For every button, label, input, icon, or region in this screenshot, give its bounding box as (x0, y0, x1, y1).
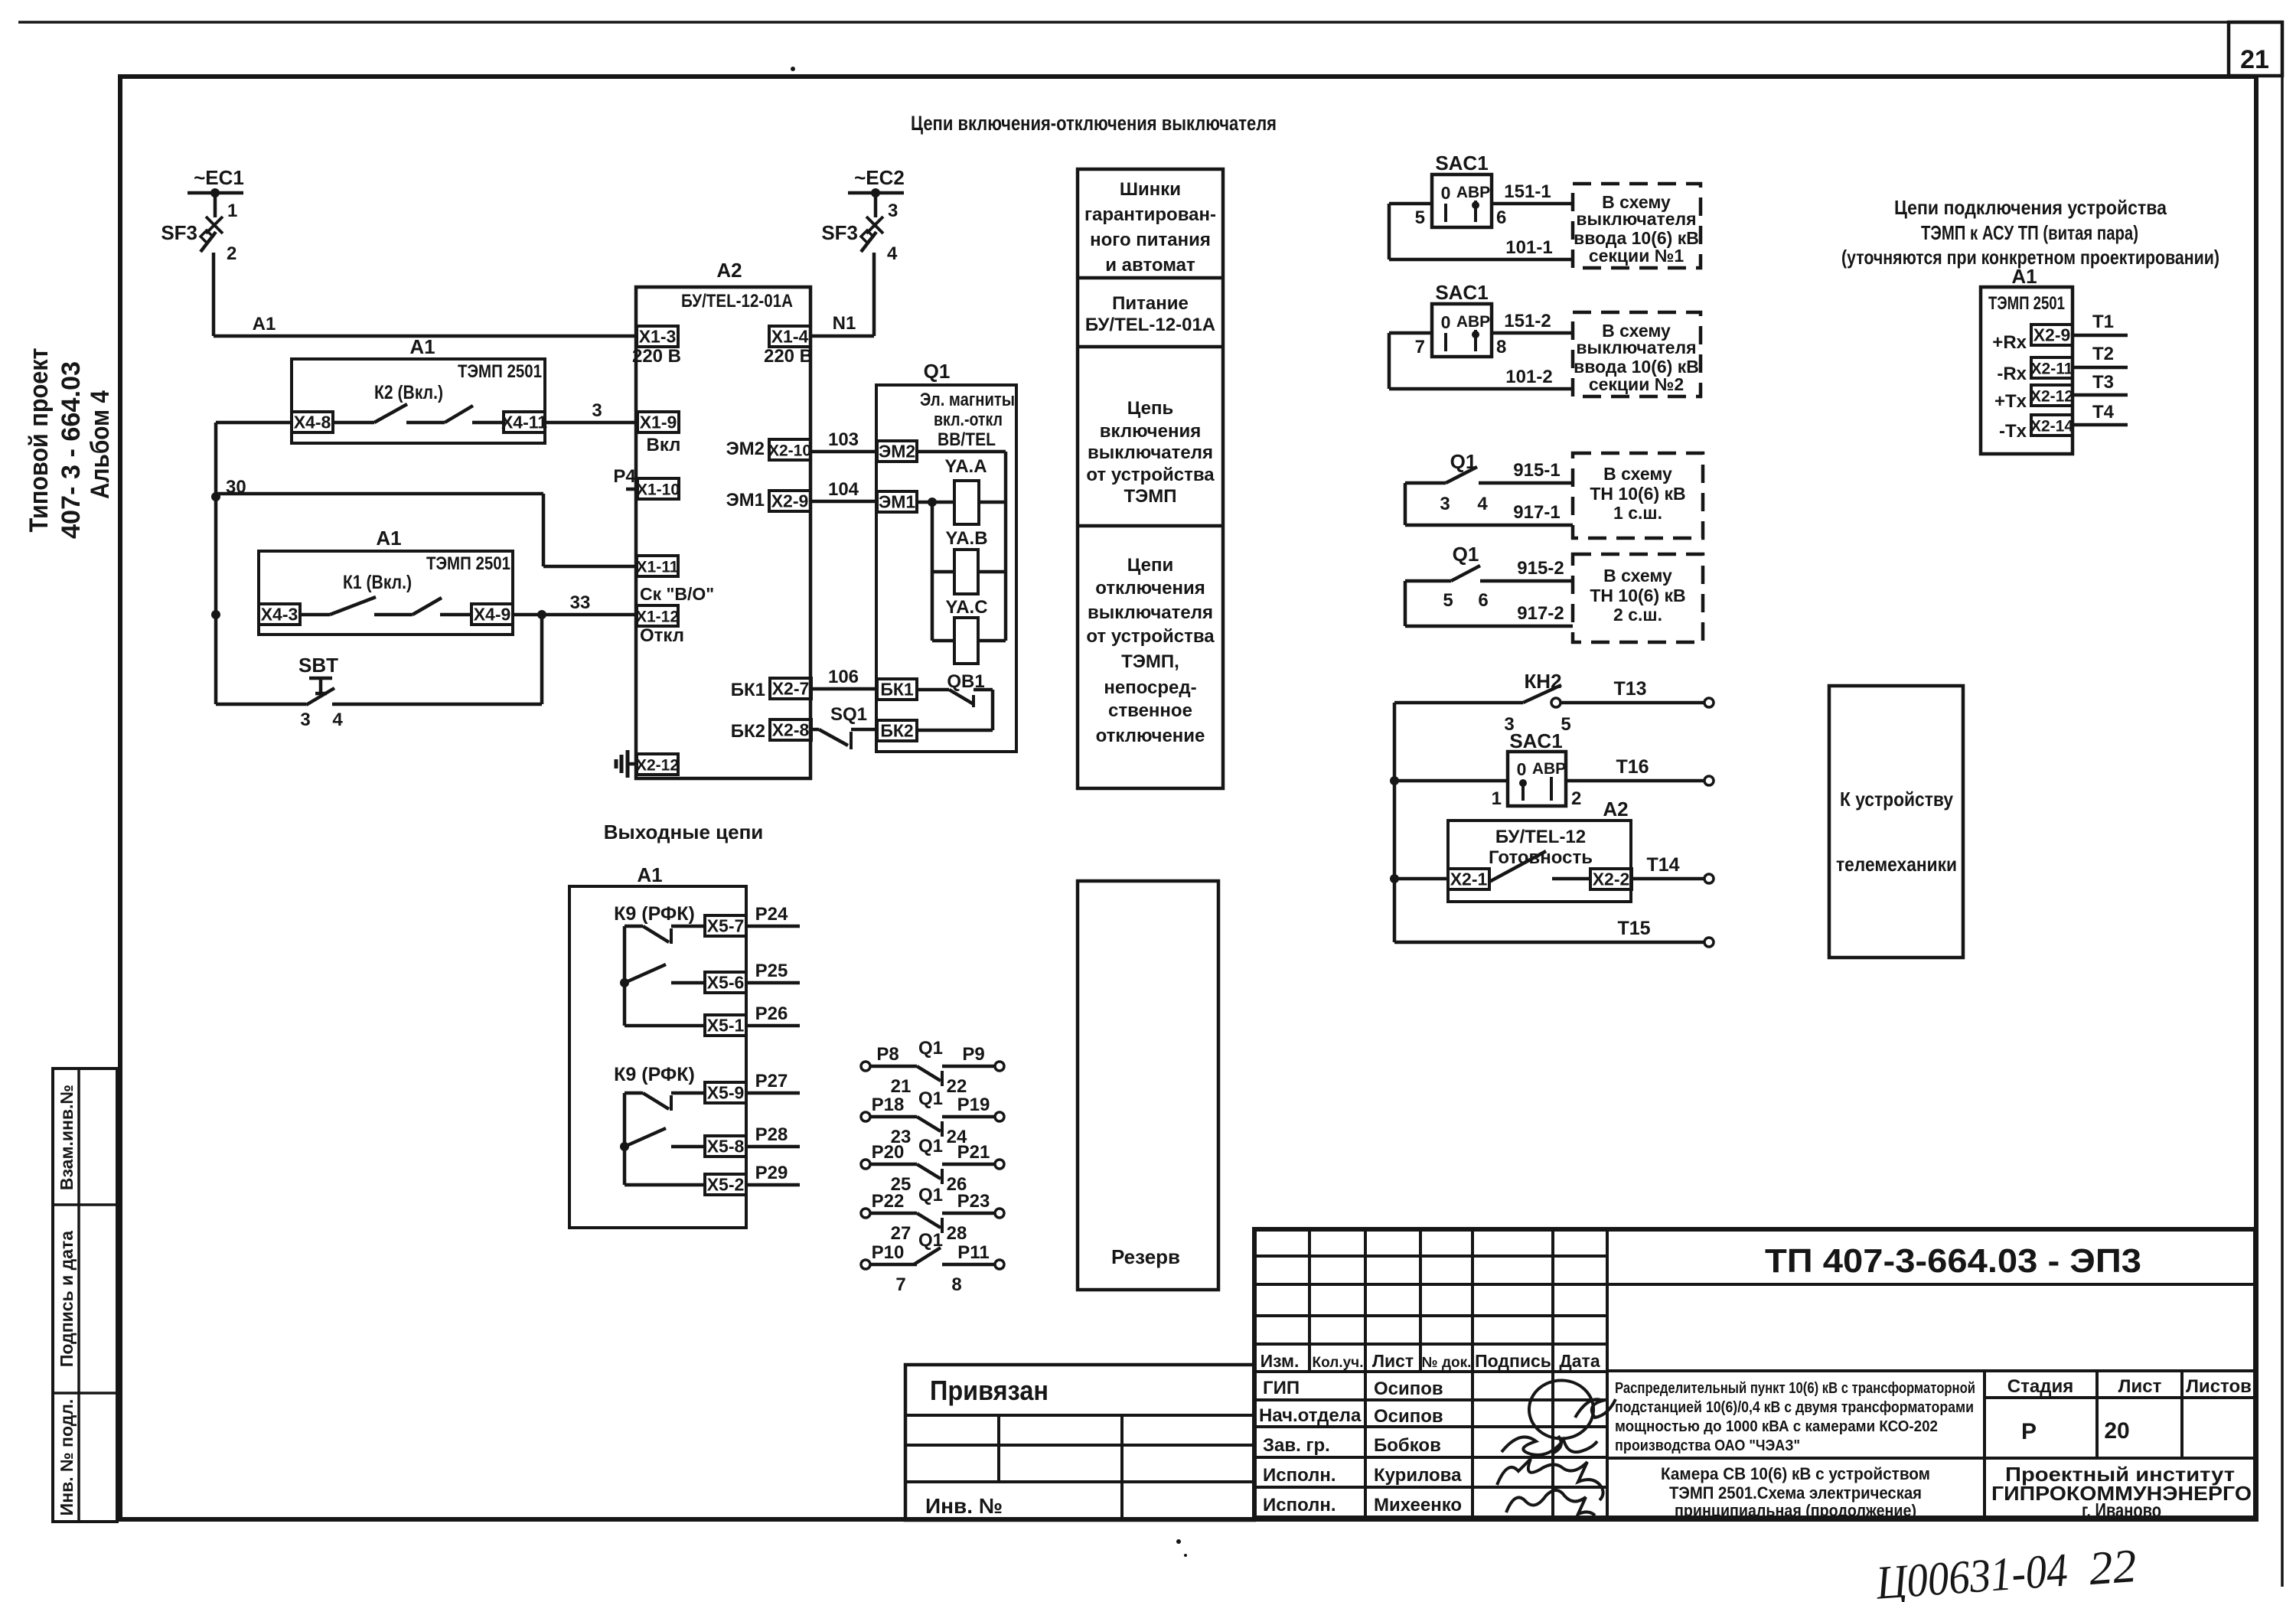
svg-text:915-2: 915-2 (1517, 558, 1564, 579)
svg-text:ЭМ2: ЭМ2 (879, 442, 915, 462)
svg-text:SBT: SBT (298, 654, 338, 677)
wire 104 (810, 500, 877, 504)
svg-text:YA.A: YA.A (944, 456, 987, 477)
svg-text:БУ/TEL-12-01А: БУ/TEL-12-01А (1085, 315, 1215, 335)
wire SBT left (216, 703, 306, 706)
svg-text:X2-2: X2-2 (1593, 870, 1630, 889)
svg-text:0: 0 (1441, 312, 1451, 332)
svg-text:Вкл: Вкл (647, 435, 681, 455)
staff rows (1254, 1398, 1607, 1401)
svg-text:5: 5 (1443, 590, 1453, 611)
wire T2 (2073, 366, 2128, 370)
svg-text:8: 8 (951, 1274, 961, 1295)
svg-text:2: 2 (227, 243, 236, 264)
svg-text:К1 (Вкл.): К1 (Вкл.) (343, 572, 412, 593)
svg-text:Взам.инв.№: Взам.инв.№ (57, 1085, 77, 1190)
wire to X5-2 (625, 1183, 705, 1187)
svg-text:1: 1 (1492, 788, 1502, 809)
wire EC2 down (874, 193, 878, 217)
switch Q1 aux contact P18/P19 (861, 1112, 870, 1121)
title block revision grid (1308, 1229, 1311, 1372)
svg-text:К9 (РФК): К9 (РФК) (614, 1064, 695, 1085)
wire T4 (2073, 423, 2128, 427)
svg-text:X2-14: X2-14 (2030, 418, 2073, 436)
svg-text:P8: P8 (876, 1044, 899, 1065)
switch SAC1 no.1 box (1432, 175, 1492, 227)
contact group 2 bus (623, 1093, 627, 1185)
svg-text:ТН 10(6) кВ: ТН 10(6) кВ (1590, 484, 1685, 504)
svg-text:Питание: Питание (1112, 293, 1189, 314)
svg-text:X2-10: X2-10 (768, 442, 811, 460)
title block outline (1254, 1229, 2255, 1518)
svg-text:0: 0 (1441, 183, 1451, 203)
svg-text:Цепь: Цепь (1127, 398, 1173, 419)
signature Осипов (1529, 1380, 1616, 1453)
svg-text:X2-12: X2-12 (2030, 388, 2073, 406)
svg-text:X1-11: X1-11 (637, 559, 679, 576)
svg-text:P18: P18 (872, 1095, 905, 1115)
wire T14 left (1394, 877, 1448, 881)
terminal X4-11 (504, 412, 545, 432)
junction EC1 (210, 188, 220, 197)
svg-text:3: 3 (888, 201, 898, 221)
svg-text:SAC1: SAC1 (1435, 152, 1488, 175)
node 30 (211, 492, 220, 501)
wire 106 (811, 687, 877, 691)
terminal X5-2 (705, 1174, 746, 1195)
svg-text:P21: P21 (957, 1142, 990, 1163)
Привязан block outline (905, 1365, 1254, 1520)
terminal X2-9 power (769, 491, 810, 511)
svg-text:6: 6 (1478, 590, 1488, 611)
svg-text:Т3: Т3 (2092, 372, 2114, 393)
svg-text:Шинки: Шинки (1120, 179, 1181, 200)
bus bar EC2 (848, 191, 904, 195)
switch Q1 aux contact P10/P11 (861, 1260, 870, 1269)
svg-text:Инв. № подл.: Инв. № подл. (57, 1399, 77, 1516)
box К устройству телемеханики (1829, 686, 1963, 958)
terminal X2-7 (770, 678, 811, 699)
svg-text:ственное: ственное (1108, 700, 1192, 721)
junction К9-2 (620, 1142, 629, 1151)
svg-text:Резерв: Резерв (1111, 1245, 1180, 1268)
svg-text:P29: P29 (755, 1163, 788, 1183)
pushbutton SBT blade (306, 688, 334, 705)
terminal X4-9 (471, 604, 513, 625)
terminal X5-6 (705, 972, 746, 993)
svg-text:Q1: Q1 (918, 1038, 943, 1059)
svg-text:20: 20 (2104, 1418, 2129, 1444)
svg-text:917-2: 917-2 (1517, 603, 1564, 624)
svg-text:В схему: В схему (1603, 464, 1672, 484)
svg-text:21: 21 (891, 1076, 912, 1097)
svg-text:X5-9: X5-9 (707, 1083, 745, 1103)
svg-text:К2 (Вкл.): К2 (Вкл.) (374, 382, 443, 403)
svg-text:БК2: БК2 (731, 721, 765, 742)
svg-text:5: 5 (1415, 207, 1425, 228)
svg-text:X5-1: X5-1 (707, 1016, 745, 1036)
terminal X1-12 (637, 605, 678, 626)
svg-text:103: 103 (828, 429, 859, 450)
svg-text:Подпись и дата: Подпись и дата (57, 1231, 77, 1367)
svg-text:Альбом 4: Альбом 4 (86, 390, 115, 499)
svg-text:Привязан: Привязан (930, 1375, 1049, 1406)
stub wire P4 (626, 488, 638, 491)
terminal X2-1 (1448, 869, 1489, 889)
svg-text:от устройства: от устройства (1086, 626, 1215, 647)
sheet top edge line (18, 21, 2282, 24)
telemetry left bus (1393, 703, 1397, 942)
block A1 output outline (569, 886, 746, 1228)
svg-text:Q1: Q1 (1453, 543, 1479, 566)
wire T1 (2073, 334, 2128, 338)
svg-text:Михеенко: Михеенко (1374, 1495, 1462, 1516)
wire P27 (746, 1091, 800, 1095)
wire 103 (810, 450, 877, 454)
terminal X1-9 (638, 412, 679, 432)
wire N1 horizontal (810, 334, 874, 338)
svg-text:от устройства: от устройства (1086, 465, 1215, 485)
svg-text:2: 2 (1571, 788, 1581, 809)
svg-text:Т2: Т2 (2092, 344, 2114, 364)
dashed box В схему выключателя секции 1 (1573, 184, 1701, 268)
svg-text:27: 27 (891, 1223, 912, 1244)
terminal БК1 Q1 (877, 679, 917, 700)
svg-text:Выходные цепи: Выходные цепи (604, 821, 764, 843)
breaker blade SF3 left (201, 232, 216, 252)
wire A1 horizontal (214, 334, 638, 338)
svg-text:2 с.ш.: 2 с.ш. (1613, 605, 1662, 625)
right bus from 33 to SBT (540, 615, 544, 704)
svg-text:В схему: В схему (1603, 566, 1672, 586)
svg-text:N1: N1 (833, 313, 856, 334)
svg-text:X2-9: X2-9 (2033, 325, 2071, 345)
svg-text:непосред-: непосред- (1104, 677, 1196, 698)
svg-text:Q1: Q1 (918, 1136, 943, 1157)
svg-text:принципиальная (продолжение): принципиальная (продолжение) (1675, 1501, 1916, 1520)
wire SBT right (332, 703, 542, 706)
svg-text:X4-11: X4-11 (501, 413, 547, 432)
wire SAC1-1 left loop (1389, 202, 1432, 206)
designation cell ТП 407-3-664.03 - ЭПЗ (1607, 1283, 2255, 1286)
wire P29 (746, 1183, 800, 1187)
coil group left vertical (931, 502, 934, 641)
svg-text:секции №1: секции №1 (1589, 246, 1684, 266)
svg-text:АВР: АВР (1532, 760, 1566, 778)
svg-text:P10: P10 (872, 1242, 905, 1263)
wire P28 (746, 1145, 800, 1149)
svg-text:БК1: БК1 (731, 680, 765, 700)
svg-text:X5-6: X5-6 (707, 973, 745, 993)
coil YA.A (954, 481, 979, 524)
svg-text:3: 3 (1440, 494, 1450, 514)
svg-text:Лист: Лист (1372, 1351, 1414, 1371)
svg-text:3: 3 (592, 400, 602, 421)
sheet right edge line (2281, 22, 2284, 1587)
svg-text:гарантирован-: гарантирован- (1084, 204, 1216, 225)
svg-text:Q1: Q1 (918, 1088, 943, 1109)
svg-text:~EC2: ~EC2 (854, 166, 905, 189)
svg-text:P22: P22 (872, 1191, 905, 1212)
svg-text:Нач.отдела: Нач.отдела (1259, 1405, 1362, 1426)
svg-text:+Тx: +Тx (1994, 391, 2027, 412)
wire P26 (746, 1024, 800, 1028)
wire T3 (2073, 393, 2128, 397)
svg-text:1: 1 (227, 201, 237, 221)
svg-text:отключение: отключение (1096, 726, 1205, 746)
svg-text:ЭМ2: ЭМ2 (726, 439, 765, 459)
svg-text:Т15: Т15 (1617, 918, 1650, 939)
scanner speck (1176, 1539, 1181, 1544)
switch SAC1 no.3 box (1508, 752, 1566, 806)
svg-text:Т4: Т4 (2092, 402, 2115, 423)
svg-text:1 с.ш.: 1 с.ш. (1613, 503, 1662, 523)
svg-text:33: 33 (570, 592, 591, 613)
wire ЭМ2 to coil bus (917, 450, 1006, 454)
terminal X1-10 (638, 478, 679, 499)
dashed box В схему выключателя секции 2 (1573, 312, 1701, 396)
svg-text:А1: А1 (2011, 265, 2037, 288)
svg-text:22: 22 (947, 1076, 967, 1097)
svg-text:БК1: БК1 (880, 680, 914, 700)
svg-text:ТЭМП,: ТЭМП, (1121, 651, 1179, 672)
svg-text:917-1: 917-1 (1513, 502, 1560, 523)
wire 3 to X1-9 (545, 421, 638, 425)
wire 151-1 (1492, 202, 1573, 206)
Готовность contact blade (1489, 851, 1546, 882)
svg-text:производства ОАО "ЧЭАЗ": производства ОАО "ЧЭАЗ" (1615, 1437, 1800, 1454)
junction T16 (1390, 776, 1399, 785)
svg-text:X2-9: X2-9 (771, 491, 809, 511)
wires YA.C (932, 639, 954, 643)
terminal X5-8 (705, 1136, 746, 1157)
svg-text:SQ1: SQ1 (830, 704, 867, 725)
terminal ЭМ1 (877, 491, 917, 512)
svg-text:АВР: АВР (1456, 184, 1490, 201)
relay K2 block outline (292, 359, 545, 443)
description column outline (1078, 169, 1223, 788)
terminal X2-8 (770, 719, 811, 740)
svg-text:220 В: 220 В (632, 346, 681, 367)
wire from X4-8 to left bus (216, 421, 292, 425)
svg-text:4: 4 (1477, 494, 1488, 514)
junction 33 (537, 610, 546, 619)
svg-text:ТЭМП: ТЭМП (1124, 486, 1177, 507)
block БУ/TEL-12 Готовность outline (1448, 821, 1631, 902)
switch SAC1 no.2 box (1432, 304, 1492, 357)
switch Q1 aux contact P8/P9 (861, 1062, 870, 1071)
svg-text:выключателя: выключателя (1576, 209, 1696, 229)
Резерв box (1078, 881, 1218, 1290)
breaker contact cross SF3 left (206, 217, 223, 233)
svg-text:151-1: 151-1 (1504, 181, 1551, 202)
dashed box В схему ТН 1 с.ш. (1573, 453, 1703, 538)
terminal X2-12 (637, 754, 678, 775)
svg-text:Т14: Т14 (1646, 854, 1679, 876)
svg-text:телемеханики: телемеханики (1836, 853, 1957, 876)
terminal X5-1 (705, 1015, 746, 1036)
svg-text:ного питания: ного питания (1090, 230, 1211, 250)
svg-text:X5-2: X5-2 (707, 1175, 745, 1195)
svg-text:P20: P20 (872, 1142, 905, 1163)
wire T16 right (1566, 779, 1705, 783)
svg-text:YA.B: YA.B (945, 528, 987, 549)
svg-text:Исполн.: Исполн. (1263, 1495, 1336, 1516)
svg-text:P4: P4 (613, 466, 636, 487)
coil YA.B (954, 550, 978, 594)
svg-text:Осипов: Осипов (1374, 1406, 1443, 1427)
svg-text:АВР: АВР (1456, 313, 1490, 331)
svg-text:SAC1: SAC1 (1509, 729, 1562, 752)
svg-text:X2-11: X2-11 (2031, 361, 2073, 378)
svg-text:YA.C: YA.C (945, 597, 987, 618)
block Q1 outline (876, 385, 1016, 752)
svg-text:P27: P27 (755, 1071, 788, 1091)
wire N1 vertical (872, 253, 876, 336)
svg-text:Р: Р (2021, 1419, 2037, 1444)
terminal X5-7 (705, 915, 746, 936)
svg-text:106: 106 (828, 667, 859, 687)
svg-text:ТН 10(6) кВ: ТН 10(6) кВ (1590, 586, 1685, 605)
svg-text:P24: P24 (755, 904, 788, 925)
svg-text:~EC1: ~EC1 (194, 166, 244, 189)
svg-text:X1-9: X1-9 (640, 413, 677, 432)
svg-text:Q1: Q1 (918, 1230, 943, 1251)
wire 151-2 (1492, 331, 1573, 335)
scanner speck (1184, 1554, 1187, 1557)
terminal БК2 Q1 (877, 720, 917, 741)
wire P24 (746, 925, 800, 928)
loop 917-2 (1404, 581, 1407, 626)
title block right grid (1607, 1369, 2255, 1372)
svg-text:4: 4 (887, 243, 898, 264)
svg-text:X4-8: X4-8 (294, 413, 331, 432)
svg-text:А1: А1 (376, 527, 401, 550)
svg-text:A1: A1 (253, 314, 276, 334)
svg-text:X5-7: X5-7 (707, 916, 745, 936)
junction EC2 (871, 188, 880, 197)
svg-text:включения: включения (1100, 421, 1201, 442)
svg-text:X2-7: X2-7 (772, 679, 810, 699)
wire EC1 down (214, 193, 217, 217)
relay K1 contacts (300, 613, 330, 617)
pushbutton SBT symbol (309, 677, 332, 680)
svg-text:Стадия: Стадия (2007, 1376, 2073, 1397)
svg-text:Инв. №: Инв. № (925, 1494, 1003, 1518)
switch КН2 (1394, 701, 1523, 705)
coil bus right vertical (1004, 452, 1008, 641)
svg-text:Зав. гр.: Зав. гр. (1263, 1435, 1330, 1456)
svg-text:А2: А2 (716, 259, 742, 282)
svg-text:X2-8: X2-8 (772, 720, 810, 740)
svg-text:К9 (РФК): К9 (РФК) (614, 903, 695, 925)
svg-text:ВВ/TEL: ВВ/TEL (938, 429, 996, 450)
svg-text:Цепи подключения устройства: Цепи подключения устройства (1894, 196, 2167, 219)
svg-text:X1-3: X1-3 (639, 327, 677, 347)
svg-text:6: 6 (1496, 207, 1506, 228)
svg-text:SAC1: SAC1 (1435, 281, 1488, 304)
terminal X1-11 (637, 556, 678, 576)
svg-text:ТЭМП 2501: ТЭМП 2501 (426, 553, 510, 574)
wire T15 (1394, 941, 1705, 945)
left margin stamp boxes (53, 1069, 117, 1522)
svg-text:P23: P23 (957, 1191, 990, 1212)
svg-text:ТЭМП 2501: ТЭМП 2501 (1988, 293, 2065, 314)
svg-text:выключателя: выключателя (1088, 602, 1213, 623)
terminal X2-2 (1590, 869, 1632, 889)
loop 917-1 (1404, 483, 1407, 525)
svg-text:Ск "В/О": Ск "В/О" (640, 584, 714, 604)
svg-text:7: 7 (1415, 337, 1425, 357)
scanner speck (791, 67, 795, 71)
svg-text:БУ/TEL-12-01А: БУ/TEL-12-01А (681, 291, 793, 312)
dashed box В схему ТН 2 с.ш. (1573, 554, 1703, 642)
wire to X5-1 (625, 1024, 705, 1028)
svg-text:Кол.уч.: Кол.уч. (1313, 1355, 1364, 1371)
breaker contact cross SF3 right (866, 217, 883, 233)
svg-text:SF3: SF3 (821, 221, 858, 244)
svg-text:-Тx: -Тx (1999, 421, 2027, 442)
svg-text:Откл: Откл (640, 625, 684, 646)
svg-text:Q1: Q1 (918, 1185, 943, 1206)
svg-text:К устройству: К устройству (1840, 788, 1953, 811)
bus bar EC1 (188, 191, 243, 195)
svg-text:101-1: 101-1 (1505, 237, 1552, 258)
svg-text:Распределительный пункт 10(6): Распределительный пункт 10(6) кВ с транс… (1615, 1380, 1975, 1397)
svg-text:Лист: Лист (2118, 1376, 2162, 1397)
page number box 21 (2229, 22, 2282, 76)
junction ЭМ1 (928, 498, 937, 507)
svg-text:X1-10: X1-10 (637, 481, 680, 499)
svg-text:№ док.: № док. (1422, 1355, 1472, 1371)
svg-text:X1-4: X1-4 (771, 327, 809, 347)
terminal X1-4 (769, 326, 810, 347)
terminal X5-9 (705, 1082, 746, 1103)
svg-text:ТЭМП 2501: ТЭМП 2501 (458, 361, 542, 382)
svg-text:Типовой проект: Типовой проект (24, 348, 54, 533)
svg-text:А1: А1 (637, 863, 662, 886)
wires YA.B (932, 570, 954, 574)
svg-text:БК2: БК2 (880, 721, 913, 741)
switch Q1 aux no.2 (1405, 579, 1451, 583)
svg-text:+Rx: +Rx (1992, 332, 2027, 353)
svg-text:Листов: Листов (2186, 1376, 2252, 1397)
signature Бобков (1502, 1437, 1597, 1454)
svg-text:ЭМ1: ЭМ1 (726, 490, 765, 511)
svg-text:X2-1: X2-1 (1450, 870, 1488, 889)
svg-text:Эл. магниты: Эл. магниты (920, 390, 1015, 410)
svg-text:P25: P25 (755, 961, 788, 981)
signature Михеенко (1506, 1490, 1595, 1516)
svg-text:3: 3 (300, 710, 310, 730)
wire from node 30 to X1-11 (216, 492, 543, 496)
svg-text:X1-12: X1-12 (636, 608, 679, 626)
contact to X5-6 (625, 964, 666, 983)
svg-text:А2: А2 (1603, 798, 1628, 821)
svg-text:915-1: 915-1 (1513, 460, 1560, 481)
ground symbol at X2-12 (629, 762, 637, 766)
svg-text:г. Иваново: г. Иваново (2082, 1499, 2161, 1522)
svg-text:ТЭМП 2501.Схема электрическая: ТЭМП 2501.Схема электрическая (1669, 1483, 1922, 1502)
svg-text:P9: P9 (962, 1044, 984, 1065)
svg-text:SF3: SF3 (161, 221, 197, 244)
svg-text:407- 3 - 664.03: 407- 3 - 664.03 (57, 361, 86, 539)
switch Q1 aux contact P20/P21 (861, 1160, 870, 1169)
svg-text:Q1: Q1 (924, 360, 951, 383)
svg-text:мощностью до 1000 кВА с камера: мощностью до 1000 кВА с камерами КСО-202 (1615, 1418, 1938, 1435)
svg-text:Т13: Т13 (1613, 678, 1646, 700)
switch Q1 aux no.1 (1405, 481, 1446, 485)
